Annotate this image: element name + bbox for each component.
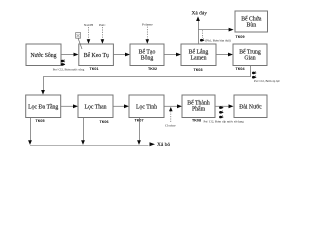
wire B7 to B8: [113, 104, 129, 108]
wire B2 to B3: [113, 53, 130, 57]
wire B8 to B9: [164, 104, 182, 108]
label pump P1: [53, 67, 85, 72]
wire B9 to B10: [215, 104, 234, 108]
label Xa day: [192, 11, 208, 17]
arrow Xa bo: [150, 142, 171, 148]
mixer M1: [76, 33, 82, 49]
svg-text:PAC: PAC: [99, 23, 106, 27]
tank B5 Be Trung Gian: [233, 44, 267, 66]
pump P4 triple: [219, 106, 223, 118]
drain riser from B6: [28, 118, 32, 145]
wire B4 to B5: [216, 53, 233, 57]
label TK04: [235, 67, 245, 71]
svg-text:Lọc Đa Tầng: Lọc Đa Tầng: [28, 103, 58, 110]
label TK08: [192, 118, 201, 122]
svg-text:Xả bỏ: Xả bỏ: [157, 142, 170, 148]
tank B4 Be Lang Lamen: [181, 44, 216, 66]
tank B8 Loc Tinh: [129, 95, 164, 118]
tank B9 Be Thanh Pham: [182, 95, 215, 118]
tank B11 Be Chua Bun: [235, 11, 268, 32]
tank B3 Be Tao Bong: [130, 44, 164, 66]
svg-text:TK02: TK02: [148, 67, 157, 71]
svg-text:Bể Chứa: Bể Chứa: [241, 15, 262, 22]
label TK02: [148, 67, 157, 71]
label TK06: [99, 120, 108, 124]
drain riser from B7: [81, 118, 85, 145]
svg-text:Lamen: Lamen: [191, 55, 207, 61]
svg-text:Xả đáy: Xả đáy: [192, 11, 208, 17]
dashed feed Polyme: [142, 22, 153, 43]
svg-text:TK04: TK04: [235, 67, 245, 71]
svg-text:TK09: TK09: [235, 35, 244, 39]
svg-text:TK05: TK05: [35, 119, 44, 123]
tank B7 Loc Than: [78, 95, 113, 118]
svg-text:Lọc Than: Lọc Than: [84, 104, 106, 110]
pump P1 pair: [61, 59, 65, 65]
label TK07: [134, 118, 143, 122]
tank B2 Be Keo Tu: [79, 44, 114, 66]
label pump P4: [204, 120, 245, 125]
svg-text:Đài Nước: Đài Nước: [239, 104, 262, 110]
svg-text:Bùn: Bùn: [247, 23, 257, 29]
tank B1 Nuoc Song: [26, 44, 61, 66]
dashed feed NaOH: [84, 23, 94, 44]
svg-text:TK01: TK01: [89, 67, 98, 71]
wire B1 to B2: [61, 53, 79, 57]
svg-text:Bể Keo Tụ: Bể Keo Tụ: [84, 52, 109, 59]
label TK01: [89, 67, 98, 71]
svg-text:TK06: TK06: [99, 120, 108, 124]
pump P2 sludge: [200, 30, 204, 41]
label TK05: [35, 119, 44, 123]
tank B10 Dai Nuoc: [234, 95, 267, 118]
svg-text:Lọc Tinh: Lọc Tinh: [136, 104, 157, 110]
svg-text:Phẩm: Phẩm: [192, 106, 206, 113]
svg-text:NaOH: NaOH: [84, 23, 94, 27]
label pump P3: [254, 79, 281, 84]
drain header: [30, 144, 149, 146]
label TK03: [193, 68, 202, 72]
pump P3 pair: [252, 71, 256, 78]
dashed feed PAC: [99, 23, 106, 44]
svg-text:Clorine: Clorine: [165, 123, 176, 127]
wire xa day riser: [196, 16, 200, 44]
drain riser from B8: [137, 118, 141, 145]
svg-text:TK03: TK03: [193, 68, 202, 72]
svg-text:TK08: TK08: [192, 118, 201, 122]
wire B5 down and across to B6: [41, 66, 250, 95]
svg-text:Gian: Gian: [244, 55, 255, 61]
dashed feed Clorine: [165, 107, 176, 128]
label pump P2: [205, 38, 230, 43]
tank B6 Loc Da Tang: [26, 95, 61, 118]
svg-text:Bông: Bông: [141, 55, 154, 61]
svg-text:Nước Sông: Nước Sông: [30, 53, 56, 59]
wire branch to sludge tank: [198, 28, 234, 32]
wire B6 to B7: [61, 104, 78, 108]
svg-text:Polyme: Polyme: [142, 22, 153, 26]
wire B3 to B4: [164, 53, 181, 57]
label TK09: [235, 35, 244, 39]
